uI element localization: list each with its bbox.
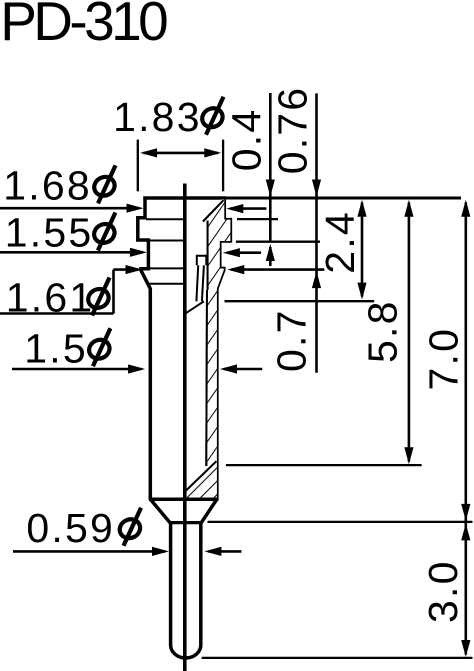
- svg-text:5.8: 5.8: [360, 299, 406, 363]
- svg-text:2.4: 2.4: [317, 210, 363, 274]
- svg-text:1.61: 1.61: [6, 275, 95, 321]
- svg-text:1.83: 1.83: [113, 94, 202, 140]
- svg-text:0.4: 0.4: [223, 108, 269, 172]
- svg-text:0.7: 0.7: [269, 308, 315, 372]
- svg-text:7.0: 7.0: [421, 327, 467, 391]
- svg-text:3.0: 3.0: [420, 559, 466, 623]
- svg-text:0.76: 0.76: [270, 86, 316, 175]
- svg-text:1.68: 1.68: [3, 162, 92, 208]
- svg-text:1.55: 1.55: [5, 210, 94, 256]
- svg-text:0.59: 0.59: [26, 505, 115, 551]
- svg-text:1.5: 1.5: [24, 325, 88, 371]
- svg-text:PD-310: PD-310: [0, 0, 167, 52]
